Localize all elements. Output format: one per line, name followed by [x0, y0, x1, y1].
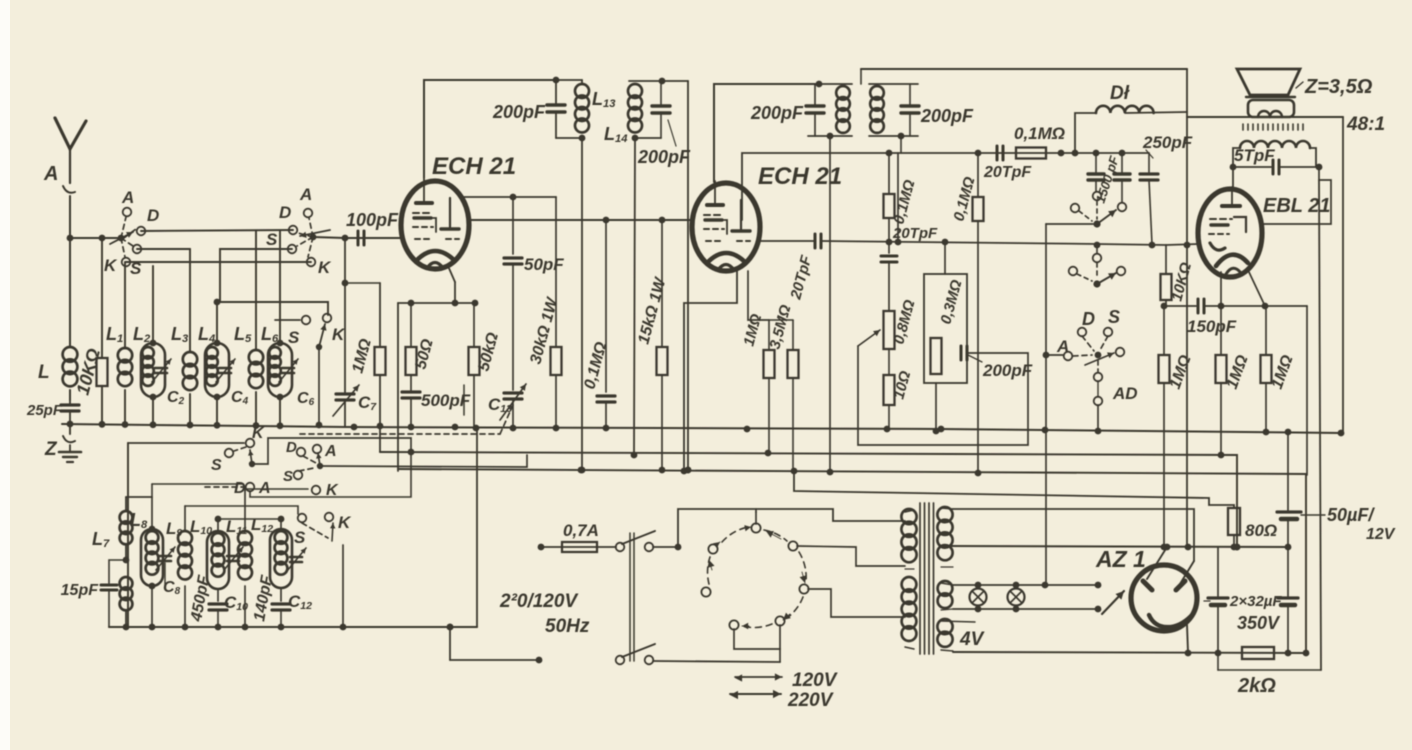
resistor 3,5M: [766, 303, 798, 471]
capacitor 200pF (IF1 sec): [637, 81, 691, 167]
resistor 0,1M top: [1014, 124, 1065, 159]
tube ECH21 first: [401, 153, 516, 269]
svg-text:D: D: [147, 206, 159, 225]
wire tube1 anode rail: [424, 77, 559, 178]
capacitor 250pF: [1140, 133, 1193, 244]
capacitor 15pF: [61, 560, 126, 627]
svg-text:S: S: [1108, 307, 1120, 327]
switch S3 upper (S/K): [275, 314, 346, 429]
ground Z: [44, 421, 81, 462]
svg-text:Z=3,5Ω: Z=3,5Ω: [1304, 76, 1373, 98]
transformer heater winding: [937, 581, 984, 651]
trimmer label C2: [167, 389, 185, 407]
svg-text:20TpF: 20TpF: [983, 164, 1032, 181]
wire speaker right down: [1338, 117, 1345, 436]
svg-text:200pF: 200pF: [750, 103, 804, 123]
wire EBL label box: [1262, 167, 1331, 224]
svg-text:50Hz: 50Hz: [545, 616, 590, 637]
capacitor 25pF: [26, 400, 79, 424]
capacitor 20TpF top: [983, 146, 1032, 181]
svg-text:K: K: [326, 482, 339, 499]
switch fan2 lower: [283, 439, 527, 499]
capacitor 2x32uF a: [1204, 547, 1228, 653]
wire HV to AZ1: [953, 509, 1194, 584]
wire EBL anode: [1232, 167, 1234, 190]
wire IF1 sec top down: [685, 81, 692, 473]
wire S2 to lower: [217, 249, 328, 315]
svg-text:220V: 220V: [787, 690, 834, 711]
coil L8: [126, 484, 243, 627]
bus line C: [398, 467, 1309, 657]
bus line D: [791, 468, 1234, 508]
wire L9 top to S: [185, 506, 298, 514]
wire selector top: [675, 509, 905, 550]
wire L11 to K: [245, 488, 308, 490]
wire bottom line: [953, 650, 1307, 657]
svg-text:A: A: [121, 188, 134, 207]
band switch S1: [104, 188, 159, 278]
wire S1 to L3: [137, 248, 190, 250]
bus line B: [380, 450, 1240, 551]
capacitor 50pF: [504, 197, 564, 390]
switch fan upper (EBL area): [1046, 192, 1126, 430]
transformer core: [920, 503, 934, 654]
resistor 0,1M (second): [950, 153, 983, 474]
bus wire A-line: [70, 235, 348, 242]
coil L4 unit: [198, 299, 235, 424]
wire bottom box: [1218, 653, 1321, 670]
label 120V 220V: [730, 670, 838, 711]
frame lower bank: [127, 443, 129, 627]
wire K1-K2: [126, 261, 311, 263]
svg-text:2kΩ: 2kΩ: [1237, 675, 1276, 697]
wire antenna to bus: [67, 235, 74, 347]
wire L14 bottom down: [631, 138, 638, 458]
resistor 30k 1W: [527, 197, 561, 428]
resistor 1M c: [1261, 306, 1297, 435]
svg-text:350V: 350V: [1237, 613, 1281, 633]
capacitor 20TpF (osc): [881, 225, 938, 311]
capacitor 5TpF: [1230, 146, 1323, 174]
resistor 0,3M box: [924, 242, 967, 434]
svg-text:Dł: Dł: [1110, 83, 1130, 104]
wire tube1 to tube2 grid: [469, 217, 691, 224]
trimmer label C6: [297, 390, 315, 408]
coil L13: [556, 80, 616, 141]
resistor 10K: [73, 235, 108, 424]
svg-text:Z: Z: [44, 439, 58, 460]
svg-text:2×32µF: 2×32µF: [1229, 593, 1282, 610]
svg-text:K: K: [252, 425, 265, 442]
voltage selector: [701, 523, 808, 629]
transformer primary: [901, 509, 916, 649]
tube AZ1: [1095, 546, 1197, 631]
capacitor 200pF (IF1 primary): [492, 80, 565, 138]
svg-text:15pF: 15pF: [61, 582, 100, 599]
wire B+ down: [1185, 69, 1192, 550]
svg-text:S: S: [288, 328, 300, 347]
svg-text:250pF: 250pF: [1142, 133, 1193, 152]
switch fan lower (EBL area): [1069, 242, 1166, 288]
capacitor 500pF: [402, 385, 471, 427]
trimmer label C4: [231, 389, 249, 407]
coil L5: [234, 231, 263, 424]
capacitor 450pF: [188, 573, 227, 627]
svg-text:S: S: [283, 468, 293, 485]
arrow AZ1 filament: [1102, 591, 1124, 614]
svg-text:120V: 120V: [792, 670, 838, 691]
svg-text:D: D: [1082, 309, 1095, 329]
coil L1: [106, 262, 132, 424]
coil IF2 secondary: [869, 84, 918, 139]
coil Dl: [1072, 83, 1187, 156]
svg-text:K: K: [104, 256, 118, 275]
svg-text:200pF: 200pF: [920, 106, 974, 126]
svg-text:50µF/: 50µF/: [1327, 505, 1375, 525]
svg-text:A: A: [324, 443, 337, 460]
switch D-A lower: [205, 452, 411, 497]
capacitor 200pF (IF2 pri): [750, 84, 824, 136]
svg-text:S: S: [211, 457, 222, 474]
wire B+ line: [945, 544, 1291, 551]
coil L9: [166, 506, 192, 627]
wire right side down: [1306, 306, 1308, 475]
svg-text:AZ 1: AZ 1: [1095, 546, 1146, 572]
svg-text:4V: 4V: [959, 629, 985, 650]
wire lamp lines: [953, 582, 1101, 613]
transformer HV secondary: [937, 507, 953, 567]
wire speaker line: [1187, 116, 1343, 118]
bus line A: [62, 421, 1341, 435]
wire L13 to line C: [579, 138, 586, 473]
band switch S2: [266, 185, 332, 277]
svg-text:S: S: [266, 230, 278, 249]
bus lower bank: [109, 429, 477, 630]
wire lamp feed: [1045, 430, 1047, 585]
resistor 50k: [469, 303, 503, 427]
wire tube2 screen: [897, 153, 899, 242]
wire A contact: [1043, 352, 1063, 359]
resistor 80: [1228, 508, 1277, 550]
wire tube1 cathode: [448, 266, 458, 306]
svg-text:200pF: 200pF: [492, 102, 546, 122]
wire EBL grid: [1166, 242, 1198, 249]
svg-text:A: A: [1056, 337, 1069, 356]
resistor 2k: [1237, 647, 1276, 697]
capacitor 100pF: [345, 210, 402, 245]
svg-text:ECH 21: ECH 21: [432, 153, 516, 180]
svg-text:K: K: [332, 325, 346, 344]
wire tube1 grid top: [462, 194, 556, 201]
switch D-S-A-AD: [1056, 307, 1138, 431]
svg-text:200pF: 200pF: [637, 147, 691, 167]
svg-text:L: L: [38, 362, 50, 383]
tube EBL21: [1198, 187, 1330, 277]
coil L3: [171, 249, 197, 424]
coil L6 unit: [261, 231, 298, 424]
resistor 1M b: [1216, 306, 1252, 458]
resistor 10: [884, 349, 915, 429]
potentiometer 0,8M: [858, 298, 919, 349]
svg-text:A: A: [299, 185, 312, 204]
antenna A: [43, 118, 86, 238]
resistor 15k 1W: [635, 217, 669, 468]
wire mains bottom left: [447, 624, 543, 664]
capacitor 150pF: [1166, 299, 1307, 336]
grid box wire tube2: [742, 150, 1149, 220]
switch K lower: [128, 425, 414, 474]
svg-text:2²0/120V: 2²0/120V: [499, 591, 578, 612]
mech link dashed: [300, 433, 500, 435]
svg-text:48:1: 48:1: [1346, 114, 1385, 135]
svg-text:D: D: [279, 203, 291, 222]
coil L14: [604, 78, 688, 146]
output transformer 48:1: [1233, 114, 1385, 167]
capacitor 50uF: [1277, 433, 1396, 547]
wire EBL cathode leads: [1221, 270, 1265, 306]
coil L10: [190, 516, 229, 601]
wire tube2 anode rail: [714, 81, 822, 182]
capacitor 20TpF series: [787, 234, 1097, 302]
svg-text:EBL 21: EBL 21: [1263, 195, 1330, 217]
svg-text:80Ω: 80Ω: [1245, 521, 1277, 540]
coil L: [38, 347, 77, 400]
top rail B+: [861, 68, 1187, 70]
svg-text:25pF: 25pF: [26, 402, 63, 419]
svg-text:100pF: 100pF: [346, 210, 399, 230]
fuse 0,7A: [538, 521, 616, 552]
svg-text:A: A: [43, 163, 58, 185]
resistor 1M: [342, 280, 386, 452]
wire IF2 sec down: [900, 136, 902, 153]
wire AZ1 bottom: [1185, 625, 1192, 656]
svg-text:12V: 12V: [1366, 526, 1396, 543]
switch S-K lower right: [294, 513, 352, 627]
resistor 50: [406, 303, 437, 390]
svg-text:K: K: [318, 258, 332, 277]
capacitor 0,1M coupling: [581, 220, 615, 428]
svg-text:20TpF: 20TpF: [892, 225, 938, 242]
wire EBL side right: [1319, 180, 1321, 670]
resistor 0,1M (first): [884, 153, 919, 253]
pilot lamp 2: [1008, 589, 1025, 606]
label mains: [499, 591, 590, 637]
coil L12: [218, 515, 292, 601]
svg-text:5TpF: 5TpF: [1234, 146, 1275, 165]
tube ECH21 second: [692, 163, 842, 271]
trimmer C8: [156, 547, 181, 597]
svg-text:S: S: [294, 528, 306, 547]
pilot lamp 1: [970, 589, 987, 606]
wire tube2 cathode: [681, 271, 737, 474]
wire tube2 grid right: [760, 240, 814, 242]
svg-text:D: D: [286, 439, 297, 456]
resistor 1M (osc grid): [740, 271, 774, 453]
resistor 10K (EBL grid): [1161, 245, 1196, 306]
wire D1-D2: [141, 230, 293, 231]
coil L2 unit: [133, 266, 171, 424]
mains switch: [616, 531, 780, 664]
coil IF2 primary: [808, 69, 861, 139]
svg-text:150pF: 150pF: [1187, 317, 1237, 336]
svg-text:0,7A: 0,7A: [563, 521, 599, 540]
capacitor 2x32uF b: [1229, 547, 1298, 653]
wire AZ1 anode lead: [1147, 547, 1167, 579]
resistor 1M a: [1159, 303, 1195, 551]
capacitor 200pF (AVC): [858, 346, 1033, 445]
svg-text:50pF: 50pF: [524, 255, 564, 274]
svg-text:0,1MΩ: 0,1MΩ: [1014, 124, 1065, 143]
capacitor 200pF (IF2 sec): [901, 84, 974, 136]
wire IF2 pri bottom down: [829, 136, 831, 472]
wire selector taps: [734, 512, 905, 662]
coil L11: [226, 489, 252, 627]
coil L7: [92, 497, 132, 627]
capacitor 1500pF: [1088, 153, 1130, 205]
capacitor 140pF: [251, 573, 290, 627]
speaker: [1237, 69, 1373, 117]
svg-text:K: K: [338, 513, 352, 532]
trimmer C12t: [287, 548, 312, 612]
trimmer C10t: [224, 547, 248, 613]
wire C7 column: [344, 238, 346, 392]
svg-text:200pF: 200pF: [982, 361, 1033, 380]
svg-text:AD: AD: [1112, 384, 1138, 403]
wire cathode bus y303: [398, 300, 478, 471]
capacitor C7: [333, 385, 377, 427]
variable capacitor C13: [488, 384, 526, 434]
